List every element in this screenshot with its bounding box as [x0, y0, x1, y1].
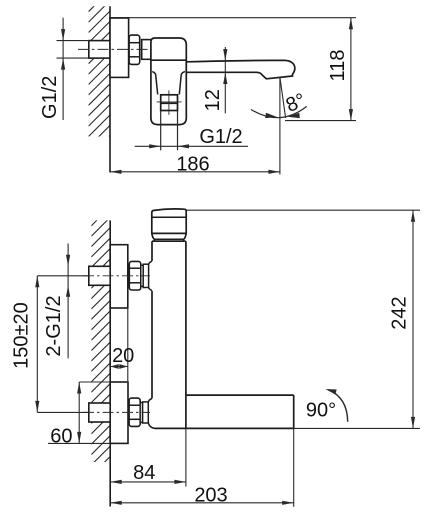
- spout top edge (bottom view): [186, 394, 294, 396]
- spout (top view): [186, 60, 295, 78]
- 203 dim line: [110, 502, 294, 504]
- upper hex nut: [129, 261, 141, 290]
- lower boss top fillet: [148, 399, 152, 402]
- svg-text:G1/2: G1/2: [199, 126, 242, 148]
- body left edge upper segment: [151, 241, 153, 261]
- 12 dim line: [224, 47, 226, 113]
- svg-text:2-G1/2: 2-G1/2: [43, 295, 65, 356]
- arrow down at spout top: [223, 49, 227, 61]
- handle cap groove line: [152, 216, 186, 218]
- upper washer: [141, 265, 143, 286]
- 8 deg dimension arc: [251, 106, 307, 117]
- arrow right at escutcheon edge: [119, 364, 128, 369]
- arrow up at pipe bottom: [61, 58, 65, 70]
- arrow right at spout outlet: [268, 170, 280, 174]
- svg-text:90°: 90°: [306, 399, 336, 421]
- top ref line for 60 dim: [79, 381, 110, 383]
- 90 deg swivel arc: [329, 390, 348, 422]
- top ext line for 242 dim: [186, 209, 420, 211]
- spout right end edge: [293, 395, 295, 428]
- upper boss flange: [143, 264, 148, 287]
- lower boss fillet to body bottom: [148, 423, 154, 428]
- ext line bottom of pipe: [57, 57, 89, 59]
- svg-text:150±20: 150±20: [10, 302, 32, 369]
- body joint line (top view): [151, 59, 186, 61]
- ext line from spout end down: [293, 428, 295, 506]
- svg-text:118: 118: [327, 50, 349, 82]
- arrow up at escutcheon top: [77, 382, 81, 394]
- lower pipe centerline dash-dot: [83, 411, 150, 413]
- bottom ext line for 118: [285, 120, 356, 122]
- lower escutcheon plate: [110, 382, 128, 443]
- faucet body outline (top view): [151, 38, 186, 125]
- ext line to upper pipe centerline: [37, 275, 89, 277]
- arrow right at spout end: [282, 501, 294, 505]
- arc arrow pointing left toward 8deg line: [288, 113, 300, 118]
- ext line from upper escutcheon edge down: [127, 308, 129, 381]
- G1/2 outlet dim line: [135, 145, 248, 147]
- arrow up at spout bottom: [223, 73, 227, 85]
- arc arrow pointing right toward vertical line: [265, 113, 277, 118]
- upper supply pipe stub: [89, 266, 110, 285]
- lower washer: [140, 403, 142, 423]
- 118 dim line: [350, 18, 352, 121]
- bottom ref line for 60 dim: [48, 442, 110, 444]
- wall face line (bottom view), ext line for 84/203: [109, 220, 111, 506]
- 150 dim line: [36, 276, 38, 413]
- 2-G1/2 dim line: [67, 244, 69, 359]
- collar recess left line (top view): [152, 72, 158, 95]
- lower hex nut: [129, 398, 140, 426]
- arrow left at wall: [110, 501, 122, 505]
- pipe centerline (top view): [78, 48, 150, 50]
- top extension line for 118 dim (merges with escutcheon top): [110, 17, 356, 19]
- body right edge: [185, 241, 187, 428]
- svg-text:203: 203: [194, 485, 227, 507]
- arrow pointing right at x=160.7: [149, 144, 161, 148]
- arrow up at top ext line: [349, 18, 353, 30]
- arrow left at wall face: [110, 364, 119, 369]
- arrow down at bottom ext: [411, 417, 415, 429]
- outlet horizontal centerline: [157, 101, 182, 103]
- upper boss top fillet: [149, 261, 152, 264]
- handle skirt taper: [152, 233, 186, 239]
- body+spout bottom edge: [155, 427, 294, 429]
- arrow down at pipe top: [61, 29, 65, 40]
- vertical line from spout outlet (186 ext line): [279, 77, 281, 174]
- svg-text:84: 84: [133, 462, 155, 484]
- upper pipe centerline dash-dot: [83, 275, 150, 277]
- ext line top of pipe: [57, 40, 89, 42]
- arrow up at upper pipe bottom: [66, 285, 70, 297]
- swivel arrow head: [325, 389, 336, 395]
- lower supply pipe stub: [89, 403, 110, 422]
- 8 deg slanted line: [280, 77, 286, 118]
- wall face line (top view), also ext line for 186 dim: [109, 6, 111, 172]
- arrow up at top ext: [411, 210, 415, 222]
- bottom ext line for 242: [294, 427, 420, 429]
- 186 dim line: [110, 171, 280, 173]
- ext line right of outlet: [177, 111, 179, 151]
- 20 dim line: [110, 366, 128, 368]
- upper escutcheon plate (bottom view): [110, 245, 128, 308]
- arrow up at upper centerline: [35, 276, 39, 288]
- arrow left at wall: [110, 480, 122, 484]
- ext line from body right edge down: [185, 428, 187, 486]
- handle cap (bottom view): [152, 209, 186, 234]
- svg-text:G1/2: G1/2: [39, 76, 61, 119]
- lower boss flange: [143, 402, 149, 423]
- arrow left at wall: [110, 170, 122, 174]
- 60 dim line: [78, 382, 80, 443]
- svg-text:186: 186: [176, 153, 209, 175]
- collar recess right line (top view): [179, 72, 185, 95]
- svg-text:20: 20: [112, 345, 134, 367]
- 242 dim line: [412, 210, 414, 428]
- svg-text:242: 242: [389, 296, 411, 329]
- 84 dim line: [110, 481, 186, 483]
- arrow pointing left at x=177.5: [178, 144, 190, 148]
- upper boss bottom fillet: [149, 288, 152, 291]
- outlet vertical centerline: [168, 90, 170, 115]
- svg-text:60: 60: [50, 425, 72, 447]
- arrow right at body edge: [174, 480, 186, 484]
- body shoulder line: [152, 240, 186, 242]
- supply pipe stub through wall (top view): [89, 41, 110, 59]
- body left edge middle segment: [151, 291, 153, 399]
- G1/2 dim line (vertical): [62, 18, 64, 120]
- ext line left of outlet: [160, 111, 162, 151]
- ext line to lower pipe centerline: [37, 411, 89, 413]
- arrow down at escutcheon bottom: [77, 432, 81, 444]
- arrow down at y=120.6: [349, 109, 353, 121]
- hex connection nut (top view): [129, 35, 140, 64]
- arrow down at upper pipe top: [66, 255, 70, 266]
- arrow down at lower centerline: [35, 401, 39, 413]
- shower outlet nut (top view): [161, 95, 178, 111]
- svg-text:12: 12: [202, 89, 224, 111]
- escutcheon wall plate (top view): [110, 18, 129, 77]
- connector between nut and body (top view): [142, 40, 152, 60]
- svg-text:8°: 8°: [283, 89, 309, 117]
